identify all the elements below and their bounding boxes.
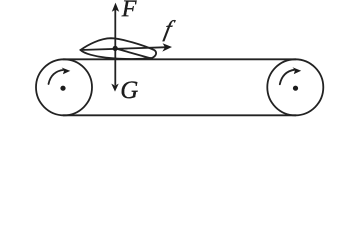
svg-text:F: F (121, 0, 137, 22)
svg-text:G: G (120, 77, 138, 104)
